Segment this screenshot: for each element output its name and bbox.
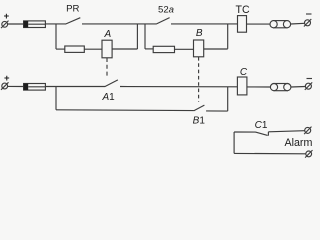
wire: alarm top <box>234 131 256 133</box>
resistor (branch B) <box>153 46 174 52</box>
wire: alarm bottom <box>234 152 306 154</box>
wire <box>84 48 102 50</box>
wire: B1 branch right leg <box>227 87 229 111</box>
relay coil B <box>194 40 204 57</box>
wire <box>45 86 105 88</box>
wire <box>112 48 137 50</box>
terminal T3 (second row left, circle with slash) <box>2 83 8 89</box>
fuse F2 (cartridge with filled end) <box>24 84 46 91</box>
terminal T6 (alarm bottom, circle with slash) <box>306 151 312 157</box>
trip coil TC <box>238 16 247 33</box>
wire <box>7 85 23 87</box>
contact B1 (normally open) <box>194 105 205 111</box>
wire <box>291 22 305 25</box>
wire <box>7 23 23 25</box>
wire: seal-in branch A left leg <box>55 24 57 49</box>
wire branch A <box>56 48 65 50</box>
svg-text:A: A <box>103 29 111 40</box>
svg-text:B: B <box>196 28 203 39</box>
svg-text:B1: B1 <box>193 116 206 127</box>
wire <box>120 86 238 88</box>
fuse F4 (drawout fuse, second row right) <box>274 84 287 91</box>
relay coil A <box>102 40 112 58</box>
svg-text:C1: C1 <box>255 120 268 131</box>
wire: B1 branch left leg <box>55 87 57 110</box>
wire: branch A right leg <box>136 24 138 49</box>
svg-text:Alarm: Alarm <box>284 137 312 149</box>
contact A1 (normally open) <box>105 80 118 87</box>
contact PR (normally open) <box>65 18 80 24</box>
wire <box>175 48 194 50</box>
wire <box>45 23 65 25</box>
svg-text:+: + <box>4 11 10 22</box>
svg-text:52a: 52a <box>158 5 174 16</box>
terminal T5 (alarm top, circle with slash) <box>305 127 311 133</box>
wire <box>247 86 270 88</box>
wire <box>291 86 305 89</box>
wire branch B <box>145 48 153 50</box>
wire: branch B left leg <box>144 24 146 49</box>
wire <box>171 23 238 25</box>
wire B1 branch <box>56 109 194 112</box>
contact C1 (normally closed blade) <box>256 132 268 135</box>
wire: branch B right leg <box>227 24 229 49</box>
svg-text:PR: PR <box>66 4 79 15</box>
wire <box>206 110 228 112</box>
wire <box>268 131 304 132</box>
wire: alarm loop left vertical <box>233 132 235 153</box>
linkage B-B1 (dashed) <box>198 57 200 102</box>
relay coil C <box>237 77 247 95</box>
node - (negative bus, top row) <box>306 13 312 15</box>
fuse F3 (drawout fuse, top right) <box>274 21 287 28</box>
resistor (branch A) <box>65 46 85 52</box>
linkage A-A1 (dashed) <box>106 58 108 78</box>
wire <box>247 23 271 25</box>
wire <box>82 23 156 25</box>
terminal T1 (top left, circle with slash) <box>2 21 8 27</box>
svg-text:+: + <box>4 73 10 84</box>
fuse F1 (cartridge with filled end) <box>24 21 46 28</box>
wire <box>204 48 228 50</box>
terminal T4 (second row right, circle with slash) <box>305 83 311 89</box>
contact 52a (breaker auxiliary, normally open) <box>156 18 170 25</box>
terminal T2 (top right, circle with slash) <box>305 20 311 26</box>
node - (negative bus, second row) <box>307 78 313 80</box>
svg-text:TC: TC <box>236 4 250 16</box>
svg-text:A1: A1 <box>101 92 115 103</box>
